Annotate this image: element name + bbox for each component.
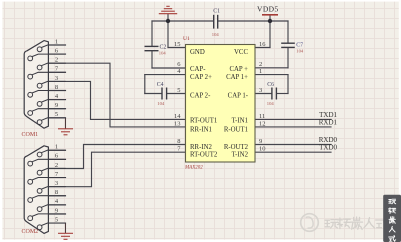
- svg-text:2: 2: [55, 57, 58, 64]
- svg-text:8: 8: [177, 138, 180, 145]
- svg-text:CAP 1-: CAP 1-: [228, 92, 249, 99]
- svg-text:MAX202: MAX202: [184, 166, 203, 171]
- svg-text:COM2: COM2: [22, 229, 39, 235]
- svg-text:104: 104: [267, 101, 275, 106]
- svg-text:3: 3: [55, 180, 58, 187]
- svg-text:CAP 2+: CAP 2+: [190, 74, 212, 81]
- svg-text:2: 2: [55, 162, 58, 169]
- svg-text:16: 16: [259, 41, 266, 48]
- svg-text:104: 104: [296, 48, 304, 53]
- svg-text:9: 9: [259, 138, 262, 145]
- svg-text:CAP 2-: CAP 2-: [190, 92, 211, 99]
- svg-text:8: 8: [55, 84, 58, 91]
- svg-text:T-IN1: T-IN1: [232, 118, 248, 125]
- svg-text:COM1: COM1: [22, 132, 39, 138]
- svg-text:9: 9: [55, 102, 58, 109]
- svg-text:104: 104: [212, 32, 220, 37]
- svg-text:TXD0: TXD0: [319, 144, 337, 152]
- svg-text:5: 5: [177, 87, 180, 94]
- svg-text:3: 3: [259, 87, 262, 94]
- svg-text:8: 8: [55, 189, 58, 196]
- svg-text:1: 1: [259, 68, 262, 75]
- svg-text:RXD1: RXD1: [319, 118, 338, 126]
- svg-text:CAP +: CAP +: [229, 66, 248, 73]
- svg-text:RR-IN2: RR-IN2: [190, 144, 213, 151]
- svg-text:R-OUT2: R-OUT2: [224, 144, 249, 151]
- svg-text:104: 104: [159, 50, 167, 55]
- svg-text:RR-IN1: RR-IN1: [190, 126, 212, 133]
- svg-text:5: 5: [55, 111, 58, 118]
- svg-text:9: 9: [55, 207, 58, 214]
- svg-text:C6: C6: [267, 82, 274, 88]
- svg-text:R-OUT1: R-OUT1: [224, 126, 248, 133]
- svg-text:5: 5: [55, 216, 58, 223]
- svg-text:15: 15: [174, 41, 181, 48]
- svg-text:1: 1: [55, 38, 58, 45]
- svg-text:10: 10: [259, 146, 266, 153]
- svg-text:GND: GND: [190, 49, 205, 56]
- svg-text:VDD5: VDD5: [257, 4, 279, 13]
- svg-text:RT-OUT2: RT-OUT2: [190, 152, 218, 159]
- svg-text:11: 11: [259, 113, 265, 120]
- svg-text:CAP 1+: CAP 1+: [226, 74, 248, 81]
- svg-text:T-IN2: T-IN2: [232, 152, 249, 159]
- svg-text:13: 13: [174, 120, 181, 127]
- svg-text:CAP-: CAP-: [190, 66, 206, 73]
- svg-text:C4: C4: [157, 82, 164, 88]
- svg-text:3: 3: [55, 75, 58, 82]
- svg-text:U1: U1: [183, 36, 190, 42]
- svg-text:1: 1: [55, 144, 58, 151]
- svg-text:RT-OUT1: RT-OUT1: [190, 118, 217, 125]
- svg-text:104: 104: [157, 101, 165, 106]
- svg-text:12: 12: [259, 120, 266, 127]
- svg-text:VCC: VCC: [234, 49, 248, 56]
- svg-text:14: 14: [174, 113, 181, 120]
- svg-text:C1: C1: [213, 8, 220, 14]
